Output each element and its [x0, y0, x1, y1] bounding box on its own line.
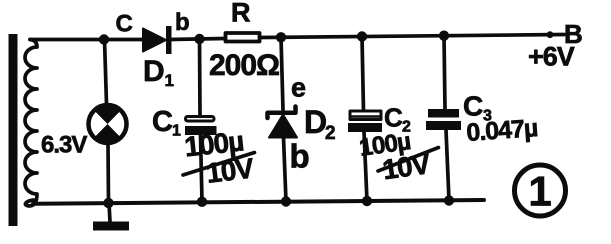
slash C2 value — [378, 148, 439, 172]
svg-text:1: 1 — [165, 71, 174, 90]
svg-text:R: R — [231, 0, 251, 28]
wire top rail right segment — [261, 35, 564, 38]
svg-text:6.3V: 6.3V — [41, 132, 87, 159]
svg-text:10V: 10V — [204, 152, 256, 189]
transformer winding — [25, 40, 37, 207]
slash C1 value — [183, 153, 255, 176]
node b junction — [194, 34, 204, 44]
wire D2 to bottom rail — [284, 138, 287, 202]
wire node b to C1 — [198, 39, 202, 116]
diode D1 — [143, 26, 172, 54]
resistor R — [226, 33, 260, 42]
label C1 — [152, 106, 181, 140]
svg-text:2: 2 — [325, 123, 336, 144]
junction C3/bottom rail — [444, 195, 454, 205]
node C2 junction — [357, 31, 367, 41]
transformer core — [9, 34, 18, 226]
wire bottom rail — [33, 200, 484, 204]
wire top rail left segment — [30, 38, 143, 42]
svg-text:C: C — [463, 91, 483, 122]
svg-text:C: C — [384, 103, 403, 133]
node C3 junction — [439, 31, 449, 41]
wire lamp to bottom rail — [106, 143, 110, 204]
node D2 junction — [276, 32, 286, 42]
zener diode D2 — [268, 107, 298, 138]
wire rail to D2 — [281, 37, 283, 110]
capacitor C2 — [348, 111, 382, 132]
node C junction — [99, 34, 109, 44]
svg-text:e: e — [291, 73, 306, 103]
wire D1 cathode to resistor — [169, 39, 224, 40]
ground — [93, 203, 129, 231]
svg-text:D: D — [304, 104, 327, 140]
wire rail to C2 — [362, 37, 364, 112]
wire rail to C3 — [444, 36, 445, 109]
wire C3 to bottom rail — [446, 130, 449, 201]
svg-text:C: C — [116, 11, 133, 38]
svg-text:1: 1 — [172, 123, 181, 140]
svg-text:10V: 10V — [381, 148, 433, 185]
svg-text:D: D — [143, 55, 165, 88]
label C3 — [463, 91, 492, 125]
wire C1 to bottom rail — [201, 135, 203, 202]
svg-text:b: b — [290, 138, 310, 175]
label C2 — [384, 103, 411, 136]
svg-text:1: 1 — [528, 168, 551, 215]
capacitor C3 — [426, 109, 461, 130]
lamp DS1 — [89, 105, 127, 143]
svg-text:200Ω: 200Ω — [209, 49, 279, 82]
svg-text:b: b — [175, 9, 190, 36]
wire node C to lamp — [105, 40, 107, 105]
junction lamp/bottom rail — [103, 198, 113, 208]
junction C2/bottom rail — [362, 196, 372, 206]
label D1 — [143, 55, 174, 90]
svg-text:C: C — [152, 106, 173, 138]
wire C2 to bottom rail — [364, 132, 367, 201]
junction C1/bottom rail — [197, 197, 207, 207]
figure number circle — [515, 165, 566, 216]
label D2 — [304, 104, 336, 144]
svg-text:+6V: +6V — [528, 42, 575, 72]
capacitor C1 — [185, 117, 217, 136]
junction D2/bottom rail — [281, 196, 291, 206]
svg-text:0.047µ: 0.047µ — [465, 114, 538, 147]
terminal B dot — [547, 31, 554, 38]
